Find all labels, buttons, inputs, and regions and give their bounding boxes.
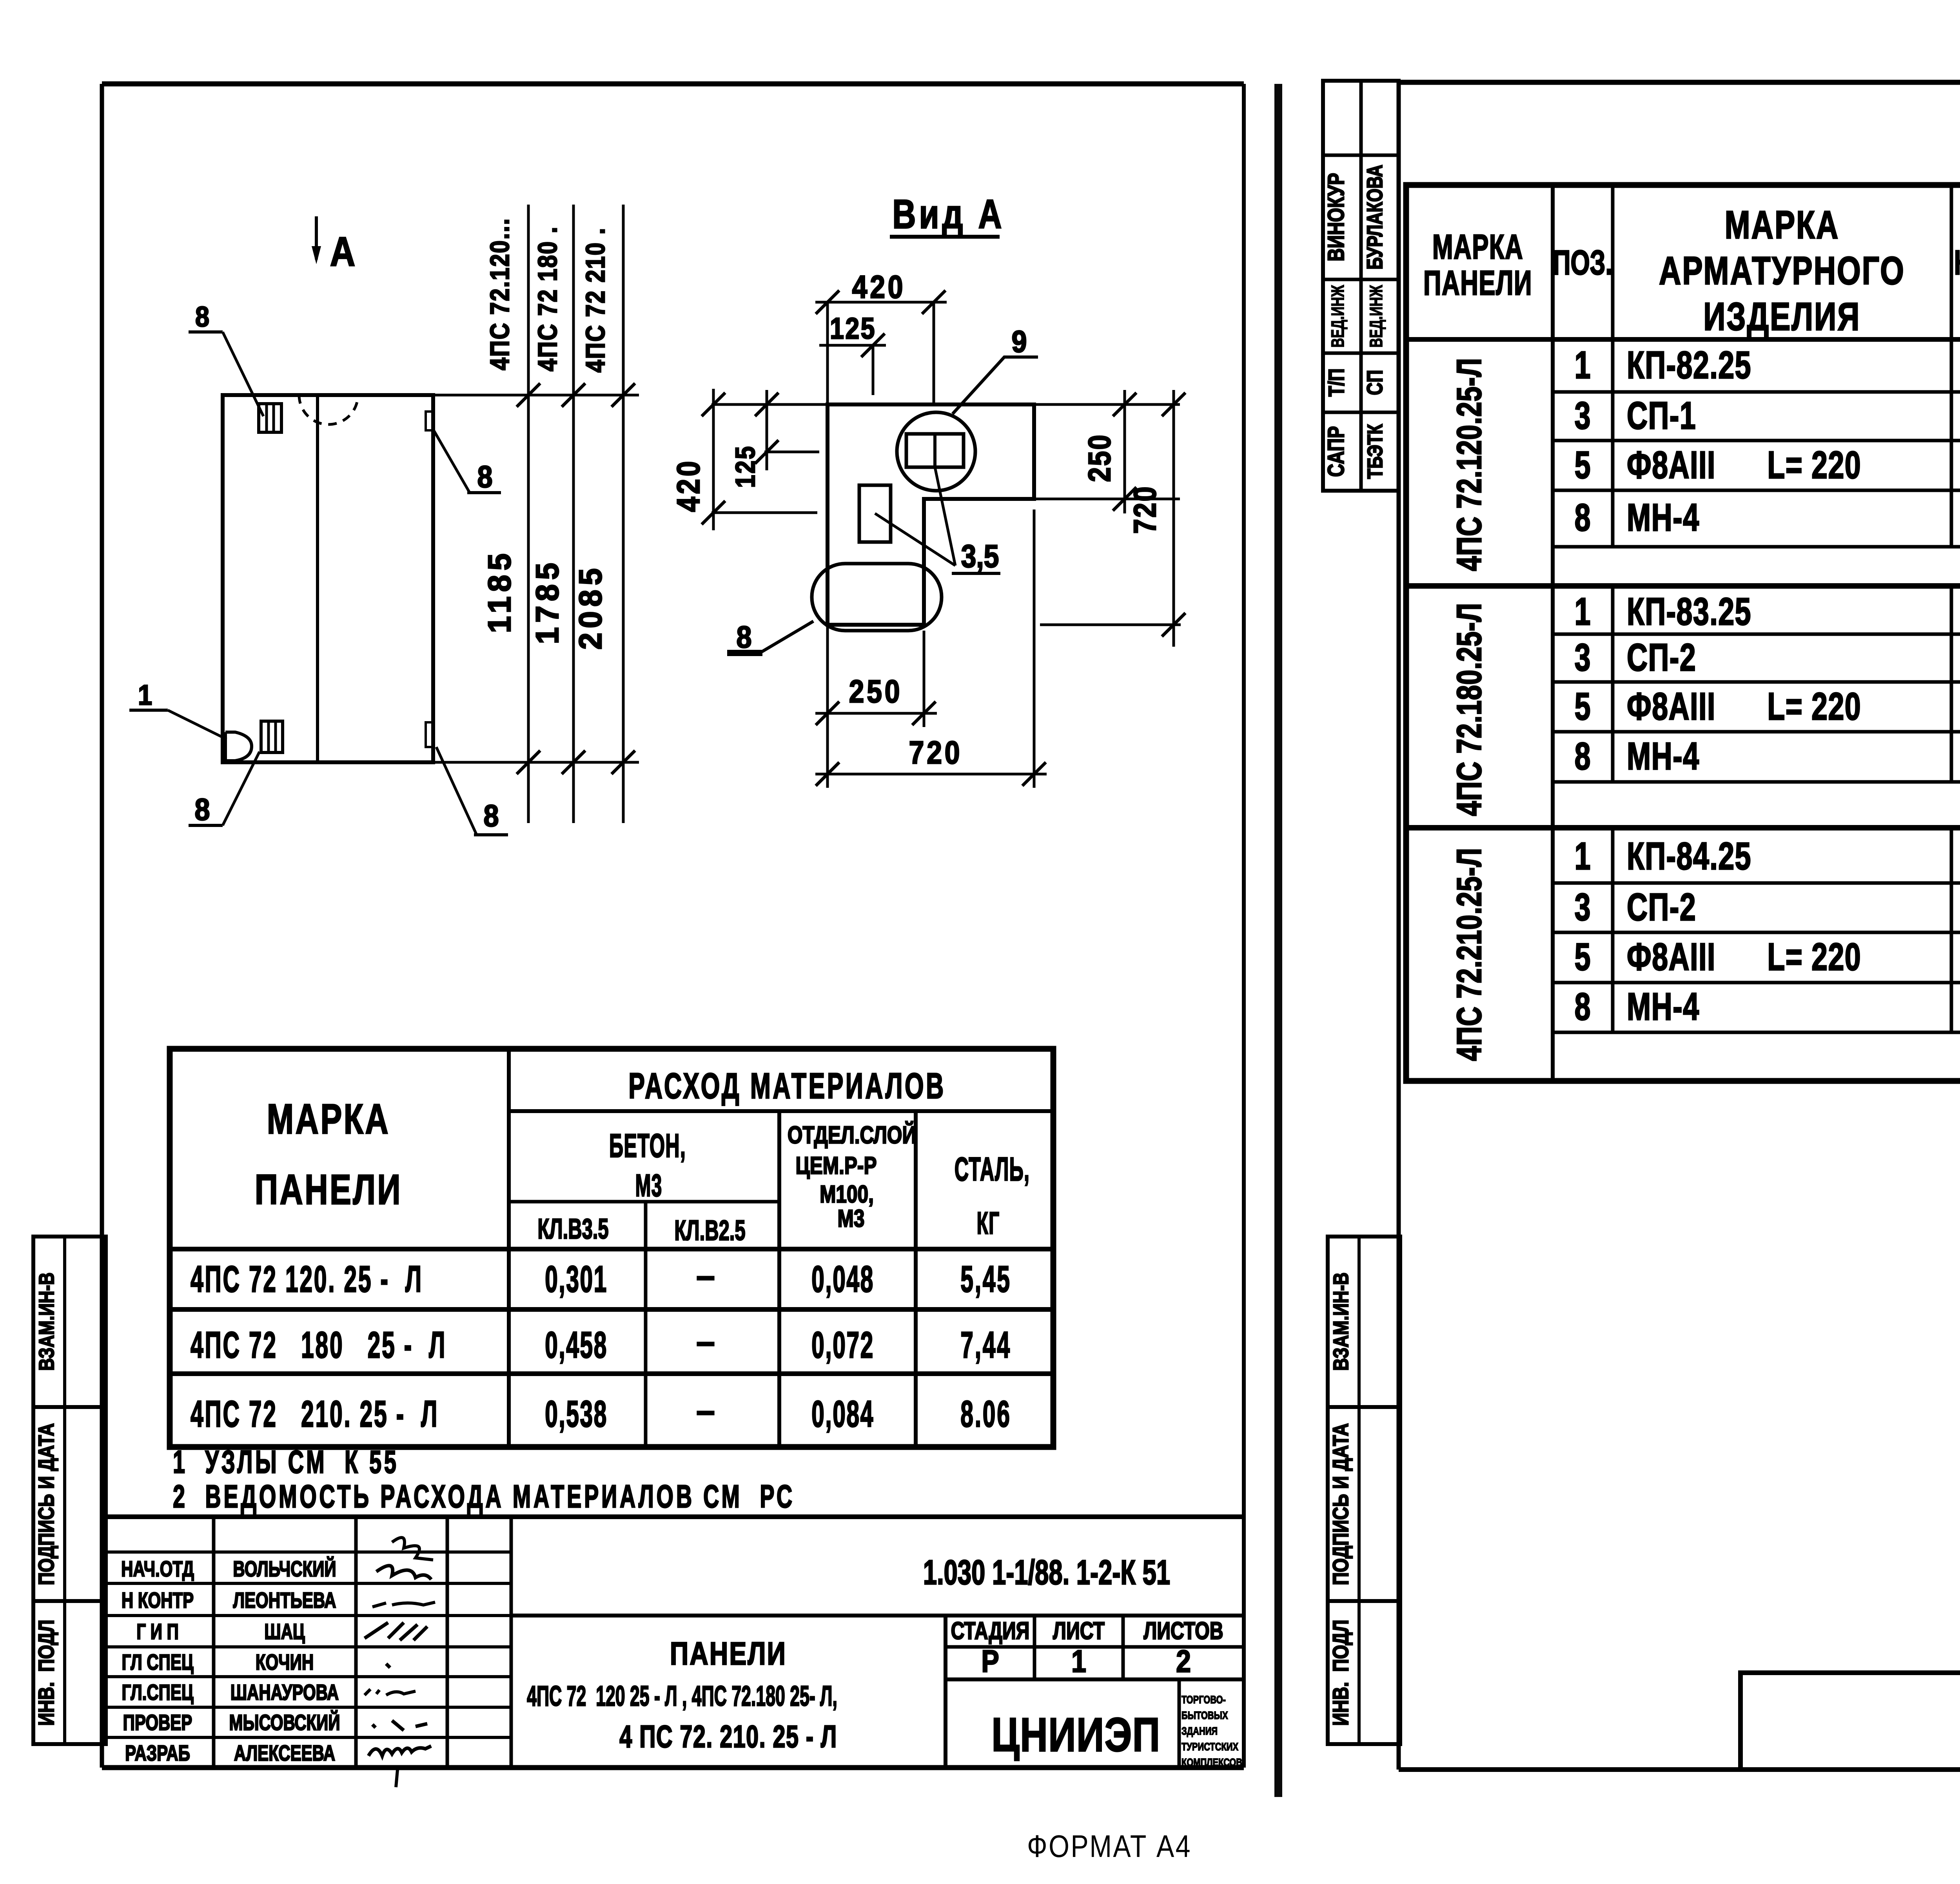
svg-text:ПАНЕЛИ: ПАНЕЛИ [670,1636,787,1672]
svg-text:МЫСОВСКИЙ: МЫСОВСКИЙ [229,1710,340,1735]
svg-text:0,084: 0,084 [811,1393,874,1434]
svg-text:4ПС 72.120.25-Л: 4ПС 72.120.25-Л [1450,358,1488,571]
svg-text:ТБЭТК: ТБЭТК [1364,424,1387,479]
svg-text:М3: М3 [635,1168,662,1203]
svg-text:ГЛ.СПЕЦ: ГЛ.СПЕЦ [122,1680,193,1704]
svg-text:БУРЛАКОВА: БУРЛАКОВА [1363,165,1387,270]
svg-text:8: 8 [194,792,210,827]
svg-text:МАРКА: МАРКА [267,1095,390,1142]
svg-text:1: 1 [1575,344,1591,387]
svg-text:4ПС 72 120. 25 - Л: 4ПС 72 120. 25 - Л [191,1258,423,1300]
svg-text:420: 420 [671,459,707,512]
svg-text:4ПС 72.180.25-Л: 4ПС 72.180.25-Л [1450,603,1488,816]
svg-text:125: 125 [830,312,876,345]
svg-text:9: 9 [1011,325,1027,359]
svg-text:420: 420 [852,269,906,305]
svg-text:1: 1 [1575,835,1591,878]
svg-text:0,048: 0,048 [811,1258,874,1300]
svg-text:8: 8 [477,460,492,494]
svg-text:720: 720 [909,735,963,771]
svg-text:2085: 2085 [572,564,608,650]
svg-text:ЛЕОНТЬЕВА: ЛЕОНТЬЕВА [233,1588,336,1612]
svg-text:М100,: М100, [820,1180,874,1208]
svg-text:КОЧИН: КОЧИН [256,1650,314,1674]
svg-text:КП-83.25: КП-83.25 [1627,591,1751,633]
svg-text:КОМПЛЕКСОВ: КОМПЛЕКСОВ [1181,1756,1242,1768]
svg-text:СТАЛЬ,: СТАЛЬ, [955,1151,1030,1188]
svg-text:КП-82.25: КП-82.25 [1627,344,1751,387]
svg-text:–: – [696,1257,715,1295]
svg-text:3: 3 [1575,395,1591,437]
svg-text:3: 3 [1575,636,1591,679]
svg-text:БЫТОВЫХ: БЫТОВЫХ [1181,1709,1228,1721]
svg-text:ПОЗ.: ПОЗ. [1553,244,1612,282]
svg-text:Ф8АIII L= 220: Ф8АIII L= 220 [1627,444,1861,487]
svg-text:1: 1 [1575,591,1591,633]
svg-text:3: 3 [1575,886,1591,929]
svg-text:250: 250 [849,674,903,710]
svg-text:ВЕД.ИНЖ: ВЕД.ИНЖ [1367,285,1386,347]
svg-text:5: 5 [1575,936,1591,979]
svg-text:1.030 1-1/88. 1-2-К 51: 1.030 1-1/88. 1-2-К 51 [923,1554,1170,1592]
svg-text:КОЛ.: КОЛ. [1954,244,1960,282]
svg-text:1: 1 [1071,1644,1086,1679]
svg-text:250: 250 [1082,433,1117,482]
svg-text:АЛЕКСЕЕВА: АЛЕКСЕЕВА [234,1741,335,1765]
svg-text:4ПС 72.210.25-Л: 4ПС 72.210.25-Л [1450,848,1488,1061]
svg-text:ВИНОКУР: ВИНОКУР [1323,173,1349,261]
svg-text:ГЛ СПЕЦ: ГЛ СПЕЦ [122,1650,193,1674]
svg-text:ИНВ. ПОДЛ: ИНВ. ПОДЛ [34,1620,58,1726]
svg-text:ШАЦ: ШАЦ [264,1619,305,1644]
svg-text:ШАНАУРОВА: ШАНАУРОВА [230,1680,339,1704]
svg-text:Ф8АIII L= 220: Ф8АIII L= 220 [1627,936,1861,979]
svg-text:5,45: 5,45 [960,1258,1011,1300]
svg-text:–: – [696,1392,715,1429]
svg-text:5: 5 [1575,444,1591,487]
svg-text:НАЧ.ОТД: НАЧ.ОТД [121,1557,194,1581]
svg-text:РАСХОД МАТЕРИАЛОВ: РАСХОД МАТЕРИАЛОВ [628,1066,946,1106]
svg-text:КЛ.В3.5: КЛ.В3.5 [537,1213,608,1245]
svg-text:МАРКА: МАРКА [1432,228,1523,267]
svg-text:5: 5 [1575,685,1591,728]
svg-text:ИЗДЕЛИЯ: ИЗДЕЛИЯ [1703,295,1860,339]
svg-text:ЦНИИЭП: ЦНИИЭП [991,1708,1160,1762]
svg-text:ОТДЕЛ.СЛОЙ: ОТДЕЛ.СЛОЙ [788,1121,916,1149]
svg-text:КГ: КГ [977,1205,1000,1240]
svg-text:1185: 1185 [481,549,517,633]
svg-text:А: А [330,228,355,274]
svg-text:М3: М3 [838,1205,865,1232]
svg-text:ВЕД.ИНЖ: ВЕД.ИНЖ [1328,285,1348,347]
svg-text:Т/П: Т/П [1324,368,1348,397]
svg-text:Г И П: Г И П [136,1619,178,1644]
svg-text:ВЗАМ.ИН-В: ВЗАМ.ИН-В [35,1273,58,1371]
svg-text:2: 2 [1176,1644,1191,1679]
svg-text:8: 8 [483,799,499,833]
svg-text:4ПС 72 180 .: 4ПС 72 180 . [533,226,563,372]
svg-text:1: 1 [138,679,152,711]
svg-text:0,538: 0,538 [545,1393,608,1434]
svg-text:0,458: 0,458 [545,1324,608,1365]
svg-text:ЛИСТ: ЛИСТ [1053,1617,1105,1644]
svg-text:СП-2: СП-2 [1627,636,1696,679]
svg-text:4ПС 72 180 25 - Л: 4ПС 72 180 25 - Л [191,1324,446,1365]
svg-text:КП-84.25: КП-84.25 [1627,835,1751,878]
svg-text:ПАНЕЛИ: ПАНЕЛИ [255,1166,402,1213]
svg-text:4ПС 72 210 .: 4ПС 72 210 . [581,227,610,373]
svg-text:ЦЕМ.Р-Р: ЦЕМ.Р-Р [795,1152,877,1179]
svg-text:0,072: 0,072 [811,1324,874,1365]
svg-text:РАЗРАБ: РАЗРАБ [125,1741,190,1765]
svg-text:СП-1: СП-1 [1627,395,1696,437]
svg-text:ЗДАНИЯ: ЗДАНИЯ [1181,1725,1218,1737]
svg-text:8: 8 [1575,735,1591,778]
svg-text:–: – [696,1323,715,1360]
svg-text:0,301: 0,301 [545,1258,608,1300]
svg-text:ПОДПИСЬ И ДАТА: ПОДПИСЬ И ДАТА [1328,1423,1353,1585]
svg-text:ПОДПИСЬ И ДАТА: ПОДПИСЬ И ДАТА [34,1423,58,1585]
svg-text:Н КОНТР: Н КОНТР [122,1588,194,1612]
svg-text:7,44: 7,44 [960,1324,1011,1365]
svg-text:КЛ.В2.5: КЛ.В2.5 [674,1215,745,1247]
svg-text:8.06: 8.06 [960,1393,1011,1434]
svg-text:СП: СП [1362,370,1387,395]
svg-text:3,5: 3,5 [961,539,999,575]
svg-text:4ПС 72 120 25 - Л , 4ПС 72.18: 4ПС 72 120 25 - Л , 4ПС 72.180 25- Л, [527,1680,837,1712]
svg-text:МН-4: МН-4 [1627,986,1700,1028]
svg-text:ИНВ. ПОДЛ: ИНВ. ПОДЛ [1328,1620,1353,1726]
svg-text:САПР: САПР [1323,426,1349,477]
svg-text:МАРКА: МАРКА [1725,203,1840,247]
svg-text:4ПС 72 210. 25 - Л: 4ПС 72 210. 25 - Л [191,1393,439,1434]
svg-text:4 ПС 72. 210. 25 - Л: 4 ПС 72. 210. 25 - Л [619,1719,837,1754]
svg-text:МН-4: МН-4 [1627,735,1700,778]
svg-text:СТАДИЯ: СТАДИЯ [951,1617,1030,1644]
svg-text:ТОРГОВО-: ТОРГОВО- [1181,1694,1226,1706]
svg-text:ВЗАМ.ИН-В: ВЗАМ.ИН-В [1329,1273,1353,1371]
svg-text:720: 720 [1127,485,1162,534]
svg-text:ПАНЕЛИ: ПАНЕЛИ [1423,264,1532,303]
svg-text:8: 8 [195,301,209,333]
svg-text:8: 8 [736,620,751,654]
svg-text:АРМАТУРНОГО: АРМАТУРНОГО [1659,249,1905,293]
svg-text:СП-2: СП-2 [1627,886,1696,929]
svg-text:8: 8 [1575,986,1591,1028]
svg-text:1 УЗЛЫ СМ К 55: 1 УЗЛЫ СМ К 55 [173,1444,399,1480]
svg-text:1785: 1785 [529,558,565,644]
svg-text:Р: Р [981,1644,999,1679]
svg-text:МН-4: МН-4 [1627,497,1700,539]
svg-text:ВОЛЬЧСКИЙ: ВОЛЬЧСКИЙ [233,1556,336,1581]
svg-text:ПРОВЕР: ПРОВЕР [123,1710,192,1735]
svg-text:Ф8АIII L= 220: Ф8АIII L= 220 [1627,685,1861,728]
svg-text:4ПС 72.120...: 4ПС 72.120... [485,218,515,370]
svg-text:ТУРИСТСКИХ: ТУРИСТСКИХ [1181,1741,1238,1753]
svg-text:Вид А: Вид А [892,191,1005,237]
svg-text:125: 125 [730,445,760,488]
svg-text:ФОРМАТ А4: ФОРМАТ А4 [1027,1829,1192,1864]
svg-text:ЛИСТОВ: ЛИСТОВ [1143,1617,1223,1644]
svg-text:8: 8 [1575,497,1591,539]
svg-text:2 ВЕДОМОСТЬ РАСХОДА МАТЕРИАЛО: 2 ВЕДОМОСТЬ РАСХОДА МАТЕРИАЛОВ СМ РС [173,1478,795,1514]
svg-text:БЕТОН,: БЕТОН, [609,1127,686,1164]
